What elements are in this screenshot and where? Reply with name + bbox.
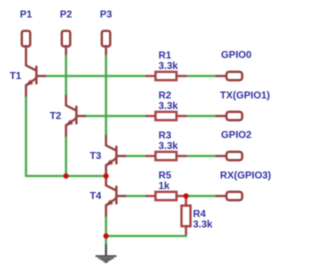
svg-text:RX(GPIO3): RX(GPIO3): [220, 170, 271, 181]
svg-text:T1: T1: [10, 71, 22, 82]
svg-text:3.3k: 3.3k: [159, 61, 179, 72]
svg-text:1k: 1k: [159, 181, 171, 192]
svg-text:P2: P2: [60, 10, 73, 21]
svg-text:P1: P1: [20, 10, 33, 21]
svg-text:T2: T2: [50, 111, 62, 122]
svg-text:P3: P3: [100, 10, 113, 21]
svg-text:R1: R1: [159, 51, 172, 62]
svg-text:R2: R2: [159, 91, 172, 102]
svg-text:T3: T3: [90, 151, 102, 162]
svg-text:GPIO2: GPIO2: [221, 130, 252, 141]
svg-text:R4: R4: [193, 209, 206, 220]
svg-text:TX(GPIO1): TX(GPIO1): [220, 90, 270, 101]
svg-text:T4: T4: [90, 191, 102, 202]
svg-text:3.3k: 3.3k: [159, 101, 179, 112]
svg-text:3.3k: 3.3k: [193, 220, 213, 231]
svg-text:3.3k: 3.3k: [159, 141, 179, 152]
svg-text:R3: R3: [159, 131, 172, 142]
svg-text:R5: R5: [159, 171, 172, 182]
svg-text:GPIO0: GPIO0: [221, 50, 252, 61]
